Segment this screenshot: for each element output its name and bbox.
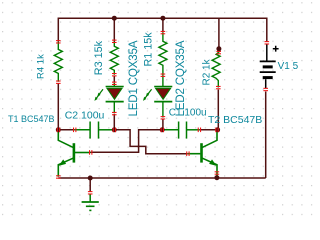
ground: [82, 194, 99, 210]
wire top power rail: [58, 17, 266, 19]
svg-text:R4 1k: R4 1k: [36, 54, 47, 79]
battery V1: [260, 44, 279, 88]
transistor T1: [58, 131, 90, 177]
wire B: T1 base to LED2 node: [91, 130, 163, 153]
wire battery bottom: [265, 92, 267, 179]
wire R2 bottom to node: [217, 90, 219, 130]
wire ground stem: [89, 178, 91, 192]
wire R3 to LED1: [113, 76, 115, 83]
svg-text:C2 100u: C2 100u: [65, 109, 105, 121]
svg-text:V1 5: V1 5: [278, 61, 299, 72]
svg-text:C1 100u: C1 100u: [169, 107, 207, 118]
svg-text:T2 BC547B: T2 BC547B: [208, 114, 262, 126]
LED1 arrows: [98, 89, 103, 95]
svg-text:LED2 CQX35A: LED2 CQX35A: [174, 40, 187, 116]
wire LED1 to node: [113, 114, 115, 130]
resistor R4: [54, 42, 62, 82]
wire LED2 to node: [162, 119, 164, 130]
resistor R3: [110, 42, 118, 75]
LED2 CQX35A symbol: [143, 76, 172, 118]
LED1 CQX35A symbol: [94, 83, 123, 113]
wire R4 bottom to node: [57, 83, 59, 130]
red pin-end ticks: [56, 40, 61, 43]
resistor R1: [159, 33, 167, 76]
svg-text:T1 BC547B: T1 BC547B: [8, 114, 55, 124]
wire C1 right net: [200, 129, 218, 131]
wire A: LED1 node to T2 base: [114, 130, 187, 154]
transistor T2: [188, 131, 217, 177]
wire R1 top: [162, 18, 164, 32]
svg-text:R1 15k: R1 15k: [142, 32, 154, 67]
wire battery top: [266, 18, 268, 43]
capacitor C2: [74, 122, 114, 139]
wire R3 top: [113, 18, 115, 41]
resistor R2: [212, 51, 220, 88]
svg-text:LED1 CQX35A: LED1 CQX35A: [127, 40, 140, 116]
svg-text:R2 1k: R2 1k: [201, 58, 212, 85]
wire bottom ground rail: [58, 177, 265, 179]
junction node dots: [112, 16, 117, 21]
LED2 arrows: [147, 89, 152, 95]
wire R2 top: [218, 18, 220, 47]
capacitor C1: [162, 122, 199, 139]
wire C2 left net: [58, 129, 74, 131]
wire R4 top: [57, 18, 59, 42]
svg-text:R3 15k: R3 15k: [93, 40, 105, 75]
